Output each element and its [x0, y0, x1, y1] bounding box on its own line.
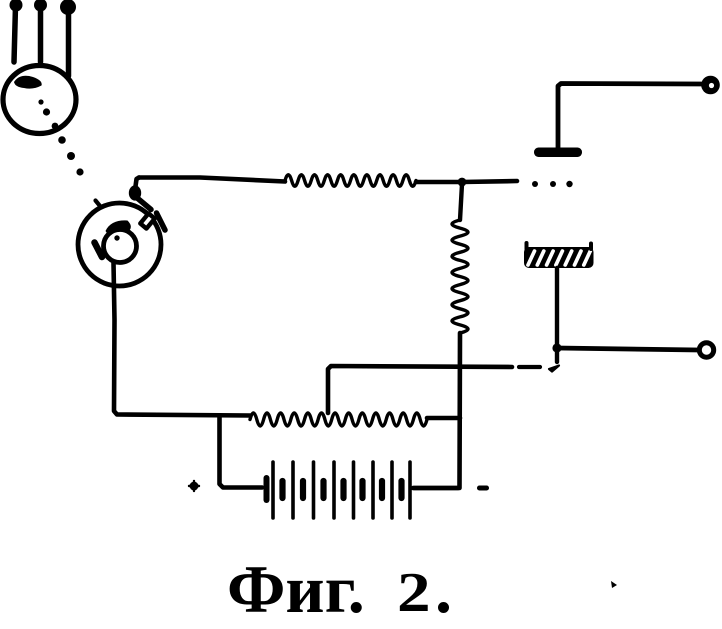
resistor R1 (grid leak)	[285, 175, 416, 187]
wire: grid line to junction	[416, 180, 462, 185]
detector inner cup	[104, 230, 137, 263]
wire: potentiometer tap	[328, 366, 512, 413]
plus sign	[189, 481, 199, 491]
detector left tick	[96, 201, 101, 207]
detector outer ring D	[78, 203, 161, 286]
wire: junction stub right	[462, 181, 517, 182]
wire: lower output lead	[557, 348, 699, 350]
lamp inner dots	[38, 99, 50, 115]
spark gap dots	[532, 181, 573, 187]
battery B1	[267, 462, 459, 518]
node A junction	[458, 178, 467, 187]
wire: upper output lead	[558, 84, 703, 150]
wire: detector post up to grid line	[135, 178, 139, 191]
dotted beam to detector	[52, 123, 84, 176]
detector whisker arm	[136, 197, 151, 210]
resistor R2 (vertical)	[452, 184, 468, 333]
lamp electrode blob	[14, 76, 42, 89]
antenna lead 3	[60, 0, 76, 76]
stray speck	[611, 581, 617, 588]
electrode plate P1	[534, 148, 582, 158]
antenna lead 1	[10, 0, 23, 62]
caption Фиг.	[227, 550, 365, 629]
detector left needle	[95, 243, 103, 258]
potentiometer R3	[250, 413, 427, 426]
caption numeral 2	[397, 561, 431, 625]
caption final period	[435, 550, 452, 629]
vacuum lamp envelope V1	[3, 66, 76, 134]
wire: block to lower junction	[555, 268, 559, 362]
wire: left battery leg	[220, 416, 263, 488]
terminal T2	[699, 343, 713, 357]
wire: R3 right end to bus	[427, 416, 460, 421]
antenna lead 2	[34, 0, 47, 62]
detector crystal wedge	[106, 220, 131, 234]
dashed tap continuation	[519, 366, 559, 372]
node B junction	[552, 343, 561, 352]
detector whisker holder	[140, 213, 154, 228]
terminal T1	[701, 76, 720, 95]
wire: top grid line left	[139, 178, 285, 182]
detector inner dot	[114, 235, 119, 240]
minus sign	[477, 486, 489, 491]
detector binding post	[129, 185, 141, 200]
electrode block P2 (hatched)	[524, 243, 594, 268]
wire: detector cathode down-left	[114, 263, 251, 416]
wire: R2 bottom down to battery bus	[414, 333, 460, 488]
detector whisker tip	[157, 213, 166, 230]
